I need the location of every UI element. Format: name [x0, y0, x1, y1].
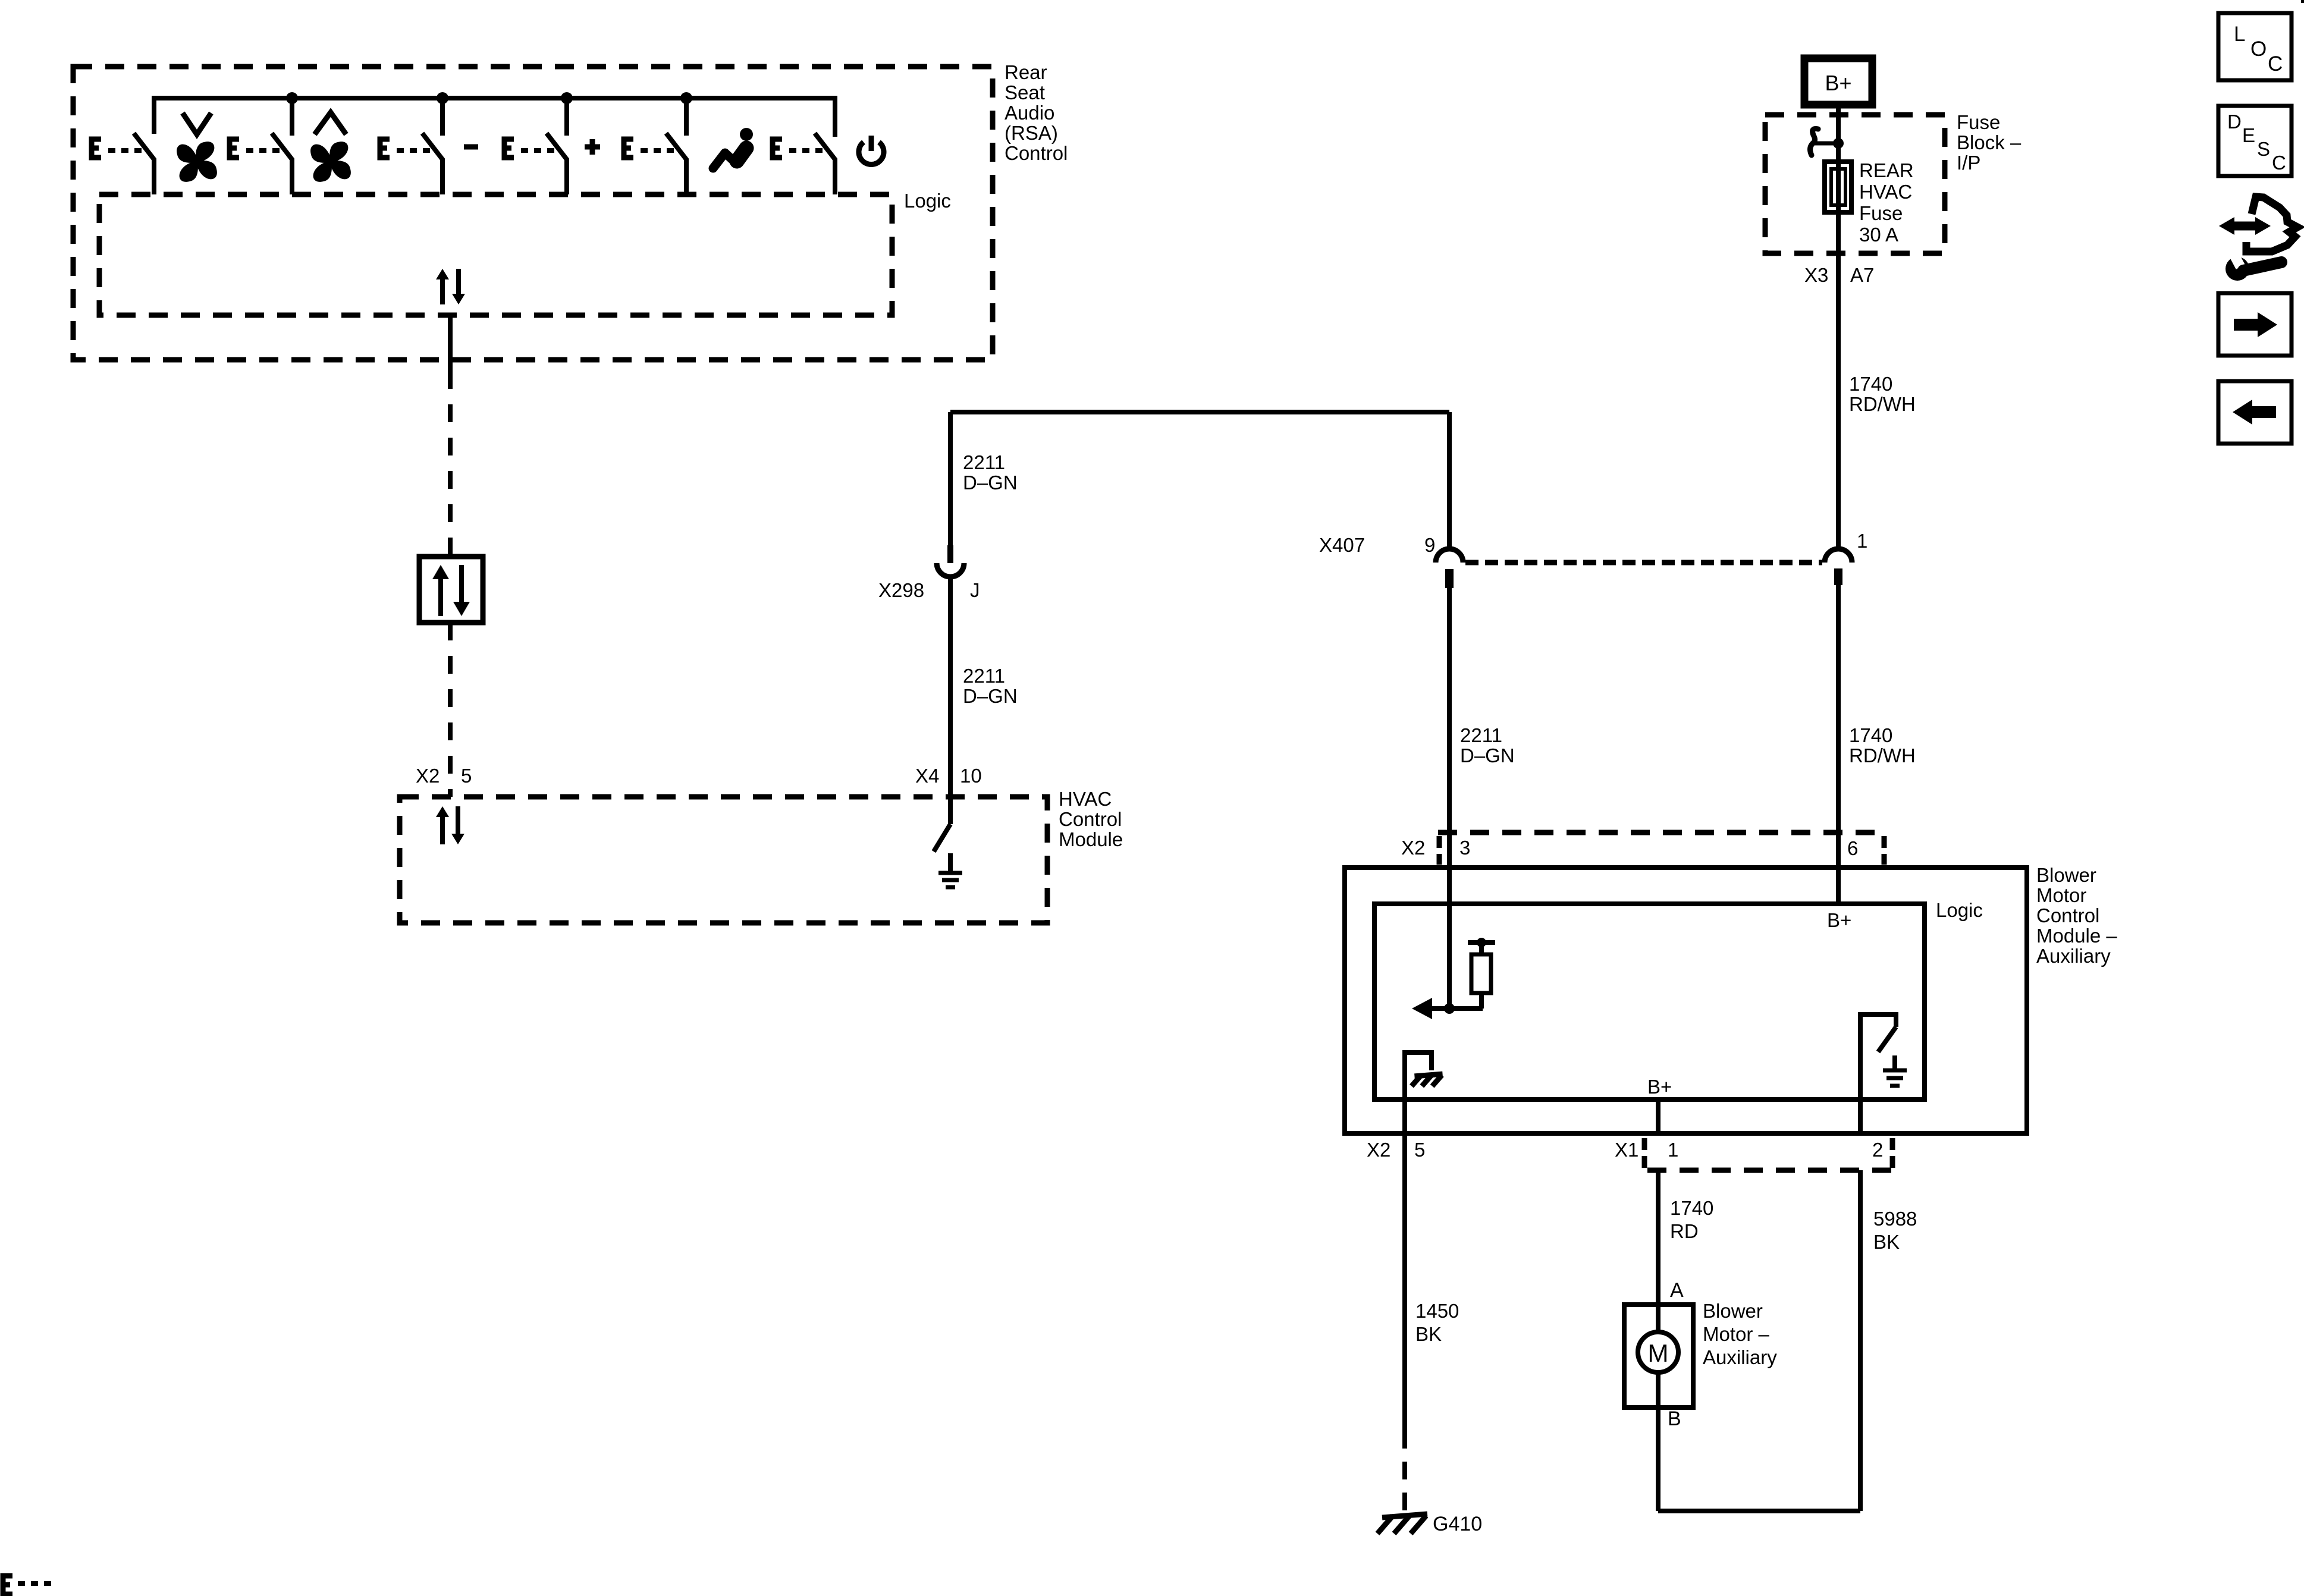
connector X407 pin 1 [1825, 549, 1852, 585]
svg-text:E: E [2242, 124, 2255, 146]
label 5 (X2 cavity) [1414, 1139, 1425, 1161]
label 2211 D-GN (above module) [1460, 724, 1515, 766]
label Logic (blower module) [1936, 899, 1983, 921]
connector X2 dash pair right [1882, 836, 1887, 865]
label E control input of fan down switch S1 [92, 139, 142, 158]
svg-text:RD/WH: RD/WH [1849, 744, 1916, 766]
svg-text:RD/WH: RD/WH [1849, 393, 1916, 415]
icon bidirectional arrows (HVAC) [436, 806, 464, 844]
svg-text:I/P: I/P [1957, 152, 1980, 174]
label E control input of increase switch S4 [504, 139, 554, 158]
label 3 (X2 cavity) [1459, 837, 1470, 859]
svg-text:REAR: REAR [1859, 159, 1914, 181]
terminal B+ battery feed [1804, 58, 1872, 105]
connector row X2 (blower module) dashed line [1438, 830, 1880, 835]
svg-text:Auxiliary: Auxiliary [2036, 945, 2111, 967]
icon fan-down chevron [183, 113, 211, 134]
svg-text:5988: 5988 [1873, 1208, 1917, 1230]
label 1450 BK [1415, 1300, 1459, 1345]
icon DESC box [2218, 106, 2292, 176]
svg-text:Blower: Blower [1703, 1300, 1763, 1322]
svg-text:BK: BK [1415, 1323, 1442, 1345]
box HVAC Control Module (dashed outline) [400, 797, 1047, 923]
svg-text:B: B [1668, 1408, 1681, 1430]
svg-text:X2: X2 [1367, 1139, 1390, 1161]
label 5988 BK [1873, 1208, 1917, 1253]
svg-text:X4: X4 [915, 765, 939, 787]
wire data link to HVAC module (dashed) [448, 623, 453, 797]
switch decrease switch S3 [422, 98, 442, 194]
svg-text:X2: X2 [1401, 837, 1425, 859]
wire 5988 BK [1858, 1170, 1863, 1511]
connector X2 dash pair left [1437, 836, 1442, 865]
wire 1450 BK (dashed to ground) [1402, 1431, 1407, 1513]
wire 2211 D-GN to blower module [1447, 585, 1452, 1009]
box Fuse Block - I/P (dashed outline) [1765, 115, 1945, 253]
icon plus [585, 139, 600, 155]
svg-text:Rear: Rear [1005, 61, 1047, 83]
switch blower ground driver [1860, 1014, 1896, 1099]
symbol serial data link box [419, 557, 483, 623]
label Logic (RSA) [904, 190, 951, 212]
label A (motor pin) [1670, 1279, 1684, 1302]
connector X1 dash pair right [1890, 1138, 1895, 1168]
fuse REAR HVAC clip [1810, 128, 1844, 155]
icon minus [464, 144, 478, 150]
icon power [859, 136, 884, 164]
ground HVAC internal ground [938, 853, 962, 887]
switch HVAC internal blower switch [934, 797, 950, 852]
svg-text:6: 6 [1847, 837, 1858, 859]
connector X407 pin 9 [1436, 549, 1463, 588]
icon back arrow box [2218, 381, 2292, 444]
switch increase switch S4 [547, 98, 567, 194]
wire X407 jumper (dashed) [1465, 560, 1822, 565]
svg-text:5: 5 [1414, 1139, 1425, 1161]
wire 2211 D-GN below X298 [948, 578, 953, 824]
wire motor return bottom run [1658, 1509, 1860, 1513]
svg-text:2211: 2211 [963, 665, 1005, 687]
svg-text:S: S [2257, 138, 2270, 160]
node bus junction 1 [286, 92, 298, 104]
svg-text:Block –: Block – [1957, 131, 2022, 153]
label X2 (blower module top) [1401, 837, 1425, 859]
label B+ (pin 1 output) [1647, 1076, 1672, 1098]
wire fuse to X407 row [1836, 215, 1841, 548]
svg-text:Logic: Logic [1936, 899, 1983, 921]
motor M symbol [1638, 1332, 1678, 1372]
svg-text:C: C [2272, 152, 2286, 174]
svg-text:Control: Control [1005, 142, 1068, 164]
label 1740 RD/WH (lower) [1849, 724, 1916, 766]
mark page corner tick [2301, 0, 2304, 3]
icon bidirectional arrows (data link box) [432, 565, 470, 616]
ground logic pigtail (chassis) [1405, 1053, 1443, 1133]
wire speed signal arrow [1412, 998, 1483, 1019]
svg-text:2211: 2211 [963, 451, 1005, 473]
svg-text:1450: 1450 [1415, 1300, 1459, 1322]
wire 2211 D-GN right drop to X407 [1447, 412, 1452, 548]
ground blower driver ground [1883, 1055, 1907, 1086]
label A7 (fuse block pin) [1850, 264, 1874, 286]
svg-text:G410: G410 [1433, 1513, 1482, 1535]
ground G410 [1377, 1514, 1427, 1534]
svg-text:X3: X3 [1804, 264, 1828, 286]
box Logic (blower module, solid) [1374, 904, 1925, 1099]
label 2211 D-GN (lower left) [963, 665, 1018, 707]
svg-text:3: 3 [1459, 837, 1470, 859]
icon fan-down blades [177, 142, 217, 182]
resistor speed sense pull-up [1468, 938, 1495, 1009]
label E control (page footer) [3, 1576, 51, 1594]
svg-text:B+: B+ [1647, 1076, 1672, 1098]
svg-text:Module –: Module – [2036, 925, 2117, 947]
svg-text:1: 1 [1857, 530, 1867, 552]
svg-text:D–GN: D–GN [1460, 744, 1515, 766]
connector X1 dash pair left [1642, 1138, 1647, 1168]
label E control input of seat switch S5 [624, 139, 674, 158]
svg-text:L: L [2234, 23, 2245, 46]
svg-text:J: J [970, 579, 980, 601]
svg-text:D–GN: D–GN [963, 685, 1018, 707]
label J (X298 cavity) [970, 579, 980, 601]
label Blower Motor Control Module - Auxiliary [2036, 864, 2117, 967]
label Rear Seat Audio (RSA) Control [1005, 61, 1068, 164]
label 2211 D-GN (upper left) [963, 451, 1018, 494]
svg-text:X2: X2 [416, 765, 440, 787]
box Logic (inner dashed outline of RSA control) [99, 194, 892, 315]
svg-text:1: 1 [1668, 1139, 1678, 1161]
icon next arrow box [2218, 293, 2292, 356]
switch fan up switch S2 [272, 98, 292, 194]
svg-text:Fuse: Fuse [1859, 202, 1903, 224]
label X407 [1319, 534, 1365, 556]
label REAR HVAC Fuse 30 A [1859, 159, 1914, 246]
svg-text:Auxiliary: Auxiliary [1703, 1346, 1777, 1368]
label B (motor pin) [1668, 1408, 1681, 1430]
label E control input of fan up switch S2 [230, 139, 280, 158]
label 1740 RD [1670, 1197, 1713, 1242]
label 9 (X407 cavity) [1424, 534, 1435, 556]
switch fan down switch S1 [134, 133, 154, 194]
label Fuse Block - I/P [1957, 111, 2022, 174]
label E control input of decrease switch S3 [380, 139, 430, 158]
svg-text:Logic: Logic [904, 190, 951, 212]
svg-text:Control: Control [1059, 808, 1122, 830]
svg-text:A: A [1670, 1279, 1684, 1302]
svg-text:Blower: Blower [2036, 864, 2096, 886]
svg-text:Fuse: Fuse [1957, 111, 2000, 133]
box Rear Seat Audio (RSA) Control module (dashed outline) [73, 67, 993, 360]
label 6 (X2 cavity) [1847, 837, 1858, 859]
icon seat (recline person) [713, 128, 753, 168]
switch power switch S6 [815, 133, 835, 194]
svg-text:X407: X407 [1319, 534, 1365, 556]
svg-text:D–GN: D–GN [963, 472, 1018, 494]
connector X298 splice [937, 545, 964, 577]
svg-text:1740: 1740 [1670, 1197, 1713, 1219]
node junction speed signal [1444, 1003, 1455, 1014]
svg-text:2: 2 [1872, 1139, 1883, 1161]
pin label X4 (HVAC) [915, 765, 939, 787]
svg-text:X298: X298 [878, 579, 924, 601]
wire 1450 BK (solid) [1402, 1133, 1407, 1431]
svg-text:A7: A7 [1850, 264, 1874, 286]
wire pin2 inside module [1858, 1099, 1863, 1133]
svg-text:1740: 1740 [1849, 373, 1892, 395]
icon bidirectional arrows (RSA logic) [436, 269, 465, 304]
label 1 (X407 cavity) [1857, 530, 1867, 552]
label X2 (blower module bottom) [1367, 1139, 1390, 1161]
wire 1740 RD motor feed [1656, 1170, 1660, 1511]
switch seat switch S5 [666, 98, 686, 194]
node bus junction 4 [680, 92, 692, 104]
svg-text:2211: 2211 [1460, 724, 1502, 746]
svg-text:Motor –: Motor – [1703, 1323, 1770, 1345]
icon tools (arrow, panel outline, wrench) [2219, 197, 2297, 281]
svg-text:5: 5 [461, 765, 472, 787]
wire B+ to fuse [1836, 105, 1841, 167]
svg-text:D: D [2227, 111, 2242, 133]
svg-text:B+: B+ [1827, 909, 1851, 931]
svg-text:Motor: Motor [2036, 884, 2086, 906]
label Blower Motor - Auxiliary [1703, 1300, 1777, 1368]
label X1 [1615, 1139, 1638, 1161]
wire switch supply bus [154, 98, 835, 137]
svg-text:Audio: Audio [1005, 102, 1054, 124]
label B+ (pin 6 input) [1827, 909, 1851, 931]
svg-text:Control: Control [2036, 904, 2099, 926]
svg-text:BK: BK [1873, 1231, 1900, 1253]
svg-text:O: O [2250, 37, 2267, 61]
label G410 [1433, 1513, 1482, 1535]
wire RSA to HVAC (dashed upper) [448, 371, 453, 557]
motor Blower Motor - Auxiliary box [1624, 1305, 1693, 1408]
connector row X1 dashed line [1647, 1168, 1891, 1173]
svg-text:HVAC: HVAC [1059, 788, 1112, 810]
label HVAC Control Module [1059, 788, 1123, 850]
label X3 (fuse block pin) [1804, 264, 1828, 286]
svg-text:30 A: 30 A [1859, 224, 1898, 246]
svg-text:1740: 1740 [1849, 724, 1892, 746]
wire pin1 inside module [1656, 1099, 1660, 1133]
svg-text:10: 10 [960, 765, 982, 787]
svg-text:Seat: Seat [1005, 81, 1045, 103]
svg-text:Module: Module [1059, 828, 1123, 850]
pin label 10 (HVAC) [960, 765, 982, 787]
svg-text:M: M [1648, 1339, 1669, 1367]
label 2 (X1 cavity) [1872, 1139, 1883, 1161]
label 1 (X1 cavity) [1668, 1139, 1678, 1161]
node bus junction 3 [561, 92, 573, 104]
fuse REAR HVAC 30A body [1825, 162, 1851, 212]
label 1740 RD/WH (upper) [1849, 373, 1916, 415]
wire 2211 D-GN horizontal run [950, 410, 1449, 414]
wire RSA logic output (solid) [448, 315, 453, 371]
svg-text:(RSA): (RSA) [1005, 122, 1058, 144]
label X298 [878, 579, 924, 601]
icon LOC box [2218, 13, 2292, 80]
svg-text:9: 9 [1424, 534, 1435, 556]
svg-text:B+: B+ [1825, 71, 1851, 95]
svg-text:C: C [2268, 52, 2283, 76]
svg-text:RD: RD [1670, 1220, 1699, 1242]
svg-text:X1: X1 [1615, 1139, 1638, 1161]
wire 2211 D-GN left drop [948, 412, 953, 546]
icon fan-up blades [310, 142, 351, 182]
label E control input of power switch S6 [773, 139, 823, 158]
pin label X2 (HVAC) [416, 765, 440, 787]
svg-text:HVAC: HVAC [1859, 181, 1912, 203]
icon fan-up chevron [315, 112, 346, 134]
node bus junction 2 [437, 92, 448, 104]
wire 1740 RD/WH to blower module [1836, 583, 1841, 904]
pin label 5 (HVAC) [461, 765, 472, 787]
box Blower Motor Control Module - Auxiliary [1345, 868, 2027, 1133]
